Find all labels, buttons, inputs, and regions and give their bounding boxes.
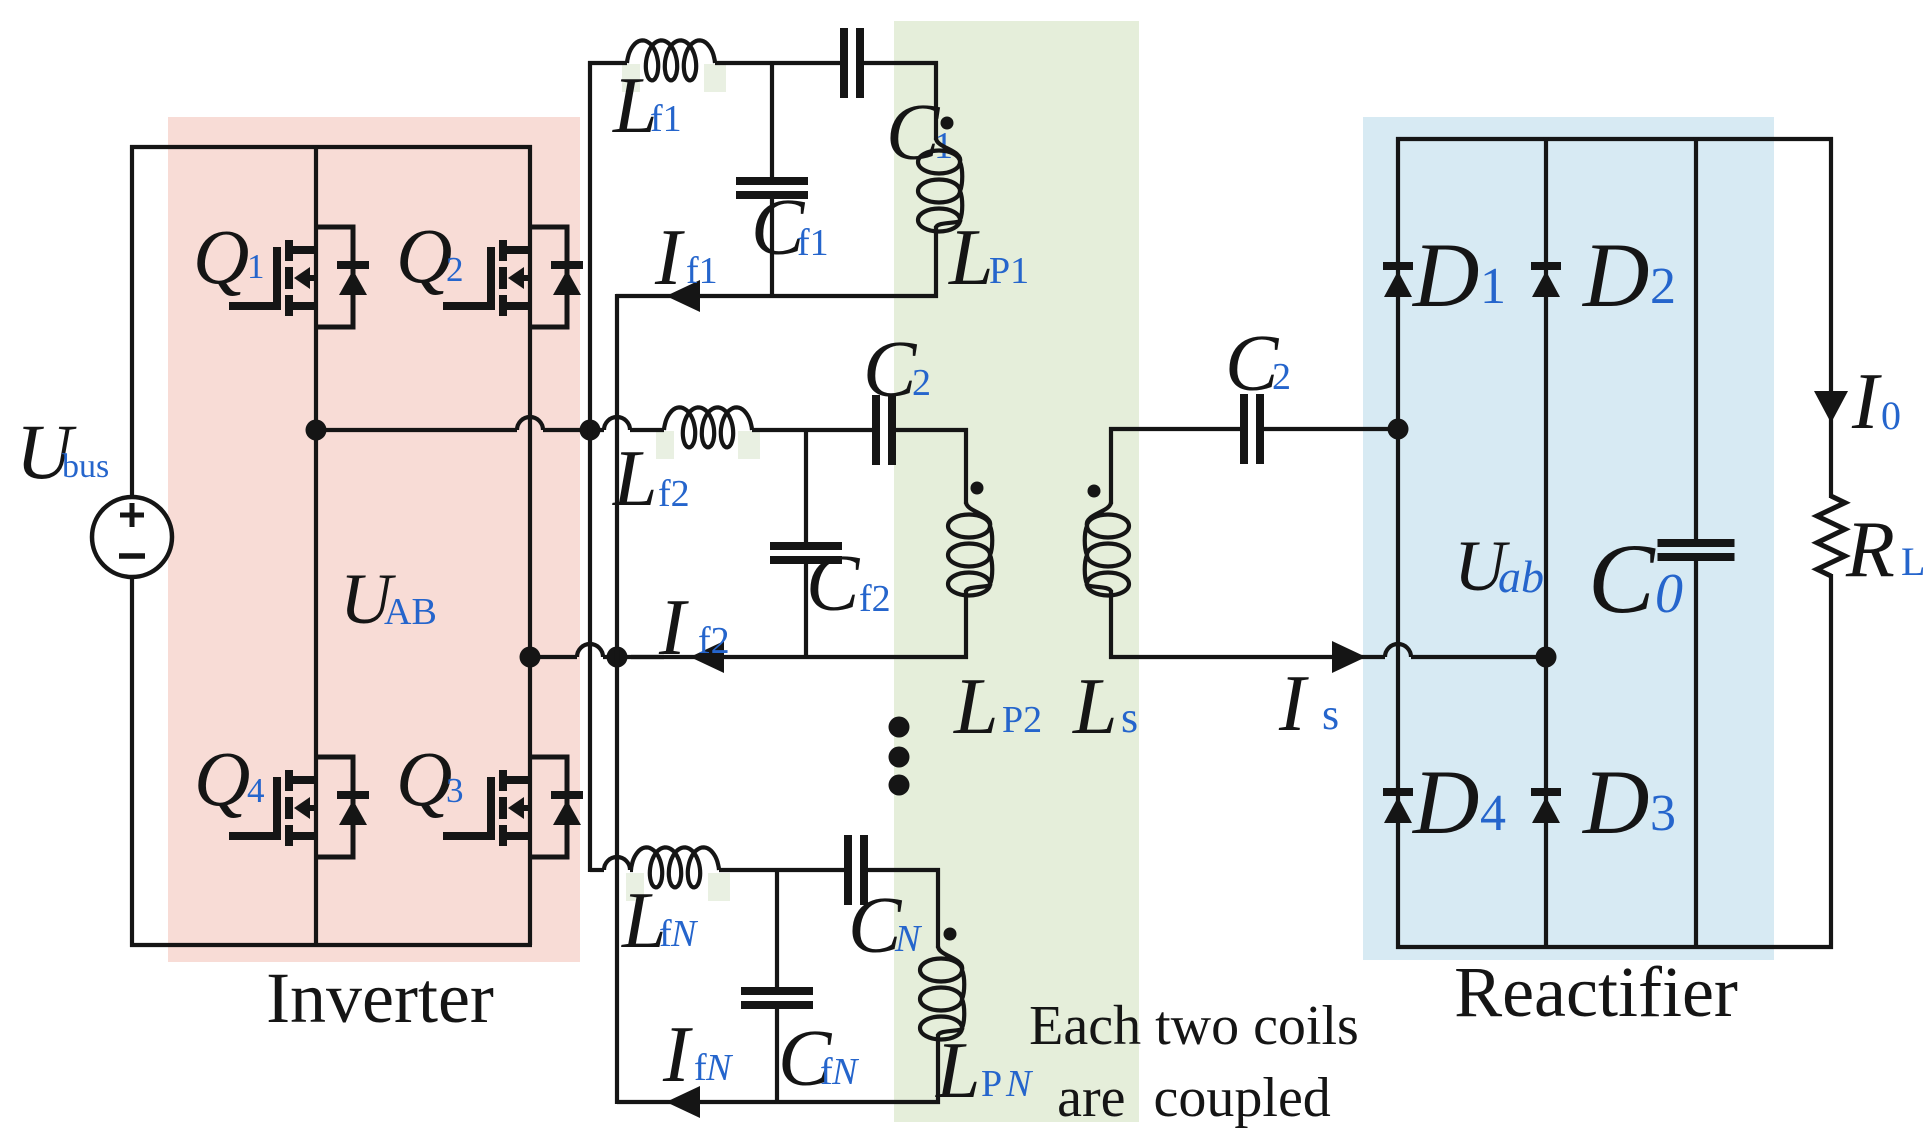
svg-text:N: N	[1005, 1063, 1034, 1105]
inverter shaded region	[168, 117, 580, 962]
transistor Q3	[443, 757, 583, 857]
wire LP1 down	[934, 226, 938, 298]
label RL	[1845, 506, 1924, 594]
svg-text:Q: Q	[396, 735, 452, 822]
label I0	[1851, 358, 1901, 446]
svg-text:s: s	[1322, 690, 1339, 739]
current arrow If2	[690, 641, 724, 673]
wire LP2 down	[964, 590, 968, 659]
wire LfN input	[590, 857, 633, 870]
svg-text:4: 4	[247, 771, 265, 810]
svg-text:2: 2	[1272, 356, 1291, 398]
inductor Lf2	[664, 407, 752, 447]
capacitor C2 primary	[872, 395, 896, 465]
polarity dot LPN	[944, 928, 957, 941]
capacitor CfN	[741, 870, 813, 1104]
capacitor CN	[844, 835, 868, 905]
label Q4	[194, 735, 265, 822]
wire rectifier top rail	[1396, 137, 1833, 141]
current arrow Is	[1332, 641, 1366, 673]
label Uab	[1454, 526, 1544, 606]
diode D2	[1531, 262, 1561, 297]
inductor LP1	[918, 138, 962, 232]
current arrow I0	[1814, 391, 1848, 423]
label LP1	[948, 214, 1029, 302]
node B wire	[530, 644, 664, 657]
label LPN	[935, 1027, 1034, 1115]
wire left rail top	[130, 145, 532, 497]
wire rectifier bottom rail	[1396, 945, 1833, 949]
polarity dot Ls	[1088, 485, 1101, 498]
wire node A riser x590	[588, 61, 592, 872]
label Q1	[193, 213, 265, 300]
svg-text:Q: Q	[396, 212, 452, 299]
svg-text:L: L	[935, 1027, 981, 1115]
label Ls	[1072, 663, 1138, 751]
wire node B riser x617	[615, 294, 619, 1104]
node A junction at x590	[580, 420, 601, 441]
node Is junction	[1536, 647, 1557, 668]
wire C2s to rectifier	[1264, 427, 1398, 431]
label D1	[1411, 224, 1506, 326]
wire Ls down	[1109, 590, 1113, 659]
node B junction at x617	[607, 647, 628, 668]
wire rectifier leg D2D3	[1544, 137, 1548, 949]
current arrow If1	[666, 280, 700, 312]
wire load branch	[1829, 137, 1833, 949]
svg-text:ab: ab	[1498, 551, 1544, 602]
label LfN	[621, 877, 699, 965]
label Q2	[396, 212, 464, 299]
svg-text:f2: f2	[698, 620, 730, 662]
label C2 primary	[863, 326, 931, 414]
svg-text:C: C	[863, 326, 918, 414]
label Lf1	[612, 62, 682, 150]
wire C2 to LP2	[896, 428, 968, 504]
label are coupled	[1057, 1067, 1331, 1129]
label If1	[654, 214, 718, 302]
inductor Lf1	[627, 40, 715, 80]
svg-text:L: L	[1072, 663, 1118, 751]
svg-text:C: C	[806, 540, 861, 628]
capacitor C2 secondary	[1240, 394, 1264, 464]
label C0	[1588, 523, 1683, 634]
label Each two coils	[1029, 995, 1359, 1057]
svg-text:L: L	[948, 214, 994, 302]
label Cf2	[806, 540, 891, 628]
label LP2	[953, 663, 1042, 751]
svg-text:R: R	[1845, 506, 1895, 594]
inductor LPN	[920, 946, 964, 1040]
svg-text:bus: bus	[62, 448, 109, 485]
inductor Ls	[1085, 502, 1129, 596]
diode D3	[1531, 788, 1561, 823]
diode D1	[1383, 262, 1413, 297]
voltage source Ubus	[92, 497, 172, 577]
node A wire	[316, 417, 664, 430]
svg-text:N: N	[831, 1051, 860, 1093]
polarity dot LP1	[941, 117, 954, 130]
wire Ls top	[1109, 427, 1240, 504]
svg-text:s: s	[1121, 693, 1138, 742]
label C1	[886, 89, 953, 177]
wire CN to LPN	[868, 868, 940, 948]
svg-text:Q: Q	[193, 213, 249, 300]
label CfN	[778, 1015, 860, 1103]
resistor RL	[1817, 496, 1845, 576]
svg-text:P1: P1	[989, 250, 1029, 292]
capacitor C1	[840, 28, 864, 98]
svg-text:N: N	[894, 918, 923, 960]
svg-text:C: C	[886, 89, 941, 177]
svg-text:3: 3	[1650, 785, 1676, 842]
wire left rail bottom	[130, 577, 532, 947]
svg-text:f1: f1	[686, 250, 718, 292]
svg-text:4: 4	[1480, 785, 1506, 842]
svg-text:Each two coils: Each two coils	[1029, 995, 1359, 1057]
svg-text:D: D	[1411, 224, 1479, 326]
svg-text:P: P	[981, 1063, 1002, 1105]
svg-text:I: I	[1851, 358, 1882, 446]
svg-text:f1: f1	[650, 98, 682, 140]
svg-text:2: 2	[446, 250, 464, 289]
svg-text:3: 3	[446, 771, 464, 810]
svg-text:I: I	[662, 1011, 693, 1099]
label If2	[658, 584, 730, 672]
svg-text:N: N	[705, 1047, 734, 1089]
label D4	[1411, 751, 1506, 853]
svg-text:L: L	[612, 435, 658, 523]
label Inverter	[266, 958, 494, 1038]
svg-text:1: 1	[1480, 258, 1506, 315]
svg-text:I: I	[1278, 660, 1309, 748]
rectifier shaded region	[1363, 117, 1774, 960]
svg-text:L: L	[953, 663, 999, 751]
wire Lf2 to C2	[752, 428, 872, 432]
label Cf1	[751, 184, 829, 272]
inductor LfN	[631, 847, 719, 887]
svg-text:N: N	[670, 913, 699, 955]
node C2s junction	[1388, 419, 1409, 440]
svg-text:L: L	[1901, 539, 1924, 584]
svg-text:D: D	[1581, 751, 1649, 853]
svg-text:2: 2	[1650, 258, 1676, 315]
wire rectifier leg D1D4	[1396, 137, 1400, 949]
svg-text:1: 1	[247, 247, 265, 286]
label CN	[848, 882, 923, 970]
svg-text:2: 2	[912, 362, 931, 404]
transistor Q4	[229, 757, 369, 857]
svg-text:C: C	[1588, 523, 1656, 634]
svg-text:f2: f2	[658, 473, 690, 515]
capacitor Cf1	[736, 63, 808, 298]
coupled-coils shaded region	[894, 21, 1139, 1122]
svg-text:Q: Q	[194, 735, 250, 822]
wire Lf1 input	[588, 61, 627, 65]
node A junction at left leg	[306, 420, 327, 441]
coil highlight marks	[622, 64, 760, 901]
label Q3	[396, 735, 464, 822]
wire C1 to LP1	[864, 61, 938, 140]
svg-text:Reactifier: Reactifier	[1454, 952, 1738, 1032]
label Ubus	[16, 408, 109, 495]
wire If1 return	[616, 294, 938, 298]
wire inverter right leg	[528, 145, 532, 945]
label IfN	[662, 1011, 734, 1099]
svg-text:Inverter: Inverter	[266, 958, 494, 1038]
capacitor C0	[1658, 137, 1735, 949]
inductor LP2	[948, 502, 992, 596]
label Is	[1278, 660, 1339, 748]
svg-text:I: I	[658, 584, 689, 672]
wire IfN return	[617, 1100, 940, 1104]
svg-text:AB: AB	[384, 591, 437, 633]
label Reactifier	[1454, 952, 1738, 1032]
wire If2 return	[631, 655, 968, 659]
svg-text:f1: f1	[797, 222, 829, 264]
wire Lf1 to C1	[715, 61, 840, 65]
transistor Q2	[443, 227, 583, 327]
svg-text:0: 0	[1881, 393, 1901, 438]
svg-text:D: D	[1581, 224, 1649, 326]
wire Is	[1109, 644, 1546, 657]
wire LPN down	[936, 1034, 940, 1104]
label C2 secondary	[1225, 320, 1291, 408]
svg-text:I: I	[654, 214, 685, 302]
continuation dots	[889, 717, 910, 796]
label UAB	[340, 559, 437, 639]
svg-text:are coupled: are coupled	[1057, 1067, 1331, 1129]
label Lf2	[612, 435, 690, 523]
node B junction at right leg	[520, 647, 541, 668]
svg-text:P2: P2	[1002, 699, 1042, 741]
svg-text:D: D	[1411, 751, 1479, 853]
diode D4	[1383, 788, 1413, 823]
capacitor Cf2	[770, 430, 842, 659]
label D2	[1581, 224, 1676, 326]
label D3	[1581, 751, 1676, 853]
wire LfN to CN	[719, 868, 844, 872]
polarity dot LP2	[971, 482, 984, 495]
svg-text:f2: f2	[859, 578, 891, 620]
svg-text:0: 0	[1655, 563, 1683, 625]
current arrow IfN	[666, 1086, 700, 1118]
wire inverter left leg	[314, 145, 318, 945]
transistor Q1	[229, 227, 369, 327]
